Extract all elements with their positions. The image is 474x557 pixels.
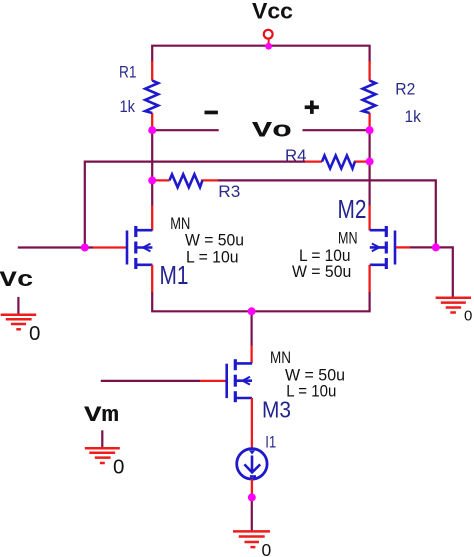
wire I1 to ground	[251, 479, 253, 497]
junction R3 left	[148, 176, 156, 184]
ground (Vm) stub	[101, 430, 103, 448]
wire M2 gate lead	[396, 246, 410, 248]
wire top rail	[152, 46, 369, 63]
svg-text:R3: R3	[218, 182, 240, 201]
wire M2 source lead	[368, 265, 370, 292]
wire tail to M3 drain	[251, 311, 253, 345]
svg-text:0: 0	[113, 456, 124, 479]
wire R3 net to M2 gate	[218, 180, 436, 247]
ground (I1)	[233, 531, 270, 547]
ground (Vc) stub	[17, 297, 19, 315]
svg-text:W = 50u: W = 50u	[292, 262, 351, 281]
resistor R4	[322, 156, 355, 169]
Vcc port circle	[264, 30, 273, 39]
svg-text:0: 0	[464, 308, 472, 325]
junction M2 gate node	[432, 243, 440, 251]
junction I1 ground node	[248, 493, 256, 501]
transistor M1	[127, 226, 152, 269]
junction tail node	[248, 307, 256, 315]
ground (Vm)	[85, 448, 120, 463]
svg-text:R2: R2	[395, 80, 415, 99]
resistor R3 leads	[152, 179, 169, 181]
ground (M2 gate)	[436, 298, 471, 313]
transistor M2	[370, 226, 395, 269]
svg-text:M3: M3	[262, 397, 291, 423]
svg-text:L = 10u: L = 10u	[286, 382, 336, 401]
svg-text:Vc: Vc	[0, 268, 34, 293]
resistor R1 leads	[151, 61, 153, 81]
Vcc port stub	[268, 39, 270, 44]
svg-text:I1: I1	[265, 432, 276, 451]
plus sign	[305, 105, 319, 109]
junction M1 gate node	[81, 244, 89, 252]
svg-text:W = 50u: W = 50u	[185, 230, 244, 249]
svg-text:MN: MN	[270, 348, 291, 367]
svg-text:M2: M2	[338, 194, 367, 224]
svg-text:Vm: Vm	[84, 403, 119, 428]
resistor R1	[145, 81, 158, 113]
wire M3 gate (Vm)	[101, 380, 200, 382]
svg-text:1k: 1k	[405, 107, 422, 126]
transistor M3	[227, 359, 252, 402]
svg-text:L = 10u: L = 10u	[186, 248, 239, 267]
wire Vc input	[18, 246, 93, 248]
resistor R2	[363, 81, 376, 113]
wire node B down to M2 drain	[369, 130, 371, 205]
svg-text:M1: M1	[160, 260, 189, 290]
wire minus probe stub	[152, 129, 219, 131]
wire M3 source to I1	[251, 398, 253, 449]
ground (Vc)	[1, 315, 37, 330]
svg-text:1k: 1k	[120, 97, 136, 116]
minus sign	[205, 111, 218, 115]
svg-text:R4: R4	[285, 146, 307, 165]
svg-text:MN: MN	[338, 229, 358, 248]
junction R4 right	[366, 158, 374, 166]
svg-text:R1: R1	[119, 63, 137, 82]
wire M2 gate to ground	[436, 247, 453, 297]
current source I1	[237, 449, 267, 479]
resistor R3	[170, 174, 203, 187]
svg-text:0: 0	[262, 540, 272, 557]
wire plus probe stub	[303, 129, 370, 131]
svg-text:0: 0	[29, 322, 40, 345]
resistor R2 leads	[368, 61, 370, 81]
wire M1 source lead	[151, 265, 153, 292]
wire node A down to M1 drain	[151, 130, 153, 205]
svg-text:Vo: Vo	[252, 119, 292, 144]
wire bottom rail	[152, 292, 369, 311]
svg-text:Vcc: Vcc	[252, 0, 293, 24]
wire R4 net: node B to M1 gate	[354, 160, 370, 162]
ground (I1) stub	[251, 497, 253, 531]
junction node A (R1 bottom)	[148, 126, 156, 134]
junction node B (R2 bottom)	[366, 126, 374, 134]
junction Vcc rail	[265, 43, 272, 50]
